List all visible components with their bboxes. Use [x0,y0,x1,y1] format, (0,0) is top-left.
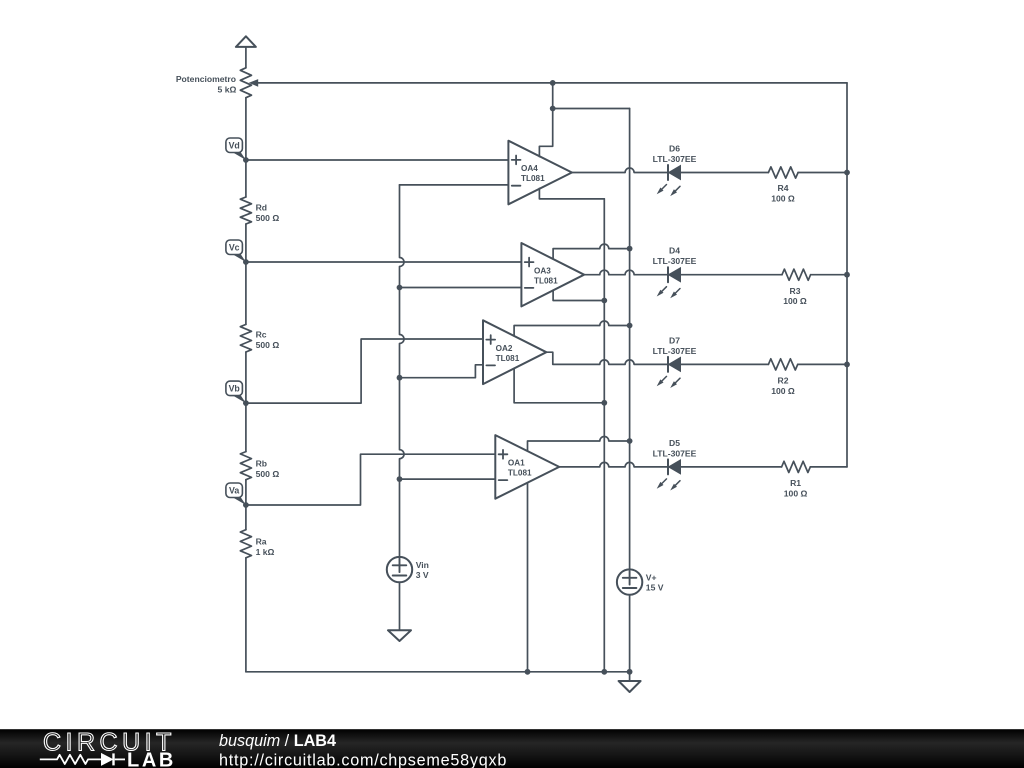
ground (bottom rail) [619,672,641,692]
node Va junction dot [243,502,249,508]
svg-text:100 Ω: 100 Ω [771,386,795,396]
voltage source Vin 3 V [387,557,429,582]
wire: ladder top segment [245,98,247,160]
wire ladder Vd to Rd [245,160,247,197]
svg-text:Potenciometro: Potenciometro [176,74,236,84]
svg-text:OA1: OA1 [508,459,525,468]
wire ladder Ra down to bottom rail [245,558,247,672]
node OA3 V+ at rail [627,246,633,252]
svg-text:Vin: Vin [416,560,429,570]
wire Vb row up to OA2 + input [246,339,483,403]
svg-text:OA3: OA3 [534,266,551,275]
wire Va row up to OA1 + input [246,454,495,505]
wire R4 to right rail [798,172,847,174]
svg-text:LAB: LAB [127,749,176,768]
svg-text:LTL-307EE: LTL-307EE [653,154,697,164]
wire right rail (pot wiper net) [846,83,848,467]
resistor Rd 500 Ohm [240,197,279,224]
svg-text:LTL-307EE: LTL-307EE [653,448,697,458]
wire Vin source to ground [399,583,401,631]
wire V- bus vertical (x=604) [603,199,605,672]
svg-text:Va: Va [229,485,239,495]
svg-text:500 Ω: 500 Ω [256,340,280,350]
node OA3 V- at bus [601,298,607,304]
CircuitLab logo [40,729,176,768]
resistor Rc 500 Ohm [240,324,279,352]
node OA2 V- at bus [601,400,607,406]
node Vc (net label flag) [226,240,246,262]
wire OA2 V+ pin to V+ rail (hop) [514,321,630,336]
svg-text:OA4: OA4 [521,164,538,173]
svg-text:R3: R3 [790,286,801,296]
svg-text:Rb: Rb [256,459,267,469]
svg-text:Vb: Vb [229,384,241,394]
wire to OA3 - input [400,287,522,289]
svg-text:Vd: Vd [229,140,240,150]
op-amp OA2 (OA2 TL081) [483,320,546,384]
LED D6 LTL-307EE [653,144,697,197]
wire branch to V+ rail top [553,108,630,110]
svg-text:http://circuitlab.com/chpseme5: http://circuitlab.com/chpseme58yqxb [219,751,507,768]
node Vin bus to OA1 - input [397,476,403,482]
svg-text:1 kΩ: 1 kΩ [256,547,275,557]
node Vin bus to OA3 - input [397,285,403,291]
wire ladder Vc to Rc [245,262,247,324]
svg-text:D5: D5 [669,438,680,448]
wire OA3 output row to R3 (hops) [584,270,782,275]
svg-text:R4: R4 [778,183,789,193]
node V+ branch junction [550,106,556,112]
node R4/right rail [844,170,850,176]
wire OA1 V- pin down to bottom rail [527,483,529,672]
voltage source V+ 15 V [617,569,664,594]
LED D7 LTL-307EE [653,335,697,388]
wire R3 to right rail [811,274,847,276]
svg-text:TL081: TL081 [496,354,520,363]
node Vin bus to OA2 - input [397,375,403,381]
svg-text:D7: D7 [669,335,680,345]
svg-text:Ra: Ra [256,537,267,547]
resistor R1 100 Ohm [782,461,811,498]
power supply flag (VCC arrow) [236,36,256,68]
wire ladder Rd to Vc [245,224,247,262]
wire bottom ground rail [246,671,630,673]
wire OA1 V+ pin to V+ rail (hop) [528,437,630,451]
svg-text:100 Ω: 100 Ω [771,194,795,204]
svg-text:500 Ω: 500 Ω [256,469,280,479]
svg-text:TL081: TL081 [508,469,532,478]
svg-text:TL081: TL081 [521,174,545,183]
wire to OA1 - input [400,478,496,480]
svg-text:Vc: Vc [229,242,240,252]
node top wire junction [550,80,556,86]
node Vb junction dot [243,400,249,406]
wire Vd row to OA4 + input [246,159,509,161]
wire OA3 V- pin to V- bus [553,290,604,300]
wire to OA2 - input (with step) [400,365,484,378]
ground (below Vin) [388,630,411,641]
svg-text:100 Ω: 100 Ω [784,488,808,498]
wire Vin bus vertical (hops over Vc, Vb-row, Va-row) [400,185,405,557]
op-amp OA3 (OA3 TL081) [521,243,584,306]
svg-text:500 Ω: 500 Ω [256,213,280,223]
resistor R4 100 Ohm [768,167,798,204]
svg-text:D4: D4 [669,246,680,256]
svg-text:TL081: TL081 [534,276,558,285]
svg-text:D6: D6 [669,144,680,154]
wire OA1 output row to R1 (hops) [559,462,781,467]
wire OA2 output jog and row to R2 (hops) [546,352,768,364]
LED D4 LTL-307EE [653,246,697,299]
op-amp OA4 (OA4 TL081) [508,141,572,205]
node OA2 V+ at rail [627,323,633,329]
svg-text:100 Ω: 100 Ω [783,296,807,306]
node Vd (net label flag) [226,138,246,160]
svg-text:LTL-307EE: LTL-307EE [653,346,697,356]
resistor R3 100 Ohm [782,269,811,306]
svg-text:15 V: 15 V [646,582,664,592]
wire V+ rail vertical [629,109,631,570]
wire ladder Rc to Vb [245,352,247,403]
node Vc junction dot [243,259,249,265]
svg-text:3 V: 3 V [416,570,429,580]
node Va (net label flag) [226,483,246,505]
node bottom rail dots [525,669,531,675]
wire ladder Rb to Va [245,480,247,505]
wire R1 to right rail corner [810,466,847,468]
wire Vin bus top to OA4 - input [400,184,509,186]
node R2/right rail [844,362,850,368]
wire OA4 V+ pin to top wire [539,83,552,157]
op-amp OA1 (OA1 TL081) [495,435,559,499]
potentiometer Potenciometro 5 kOhm [176,68,847,98]
svg-text:LTL-307EE: LTL-307EE [653,256,697,266]
wire OA4 output row to R4 (hop over V+ rail) [572,168,769,173]
node OA1 V+ at rail [627,438,633,444]
svg-text:OA2: OA2 [496,344,513,353]
svg-text:Rc: Rc [256,330,267,340]
wire ladder Vb to Rb [245,403,247,452]
svg-text:Rd: Rd [256,203,267,213]
LED D5 LTL-307EE [653,438,697,491]
wire ladder Va to Ra [245,505,247,530]
resistor Rb 500 Ohm [240,452,279,480]
svg-text:busquim / LAB4: busquim / LAB4 [219,732,336,750]
node Vb (net label flag) [226,381,246,403]
wire V+ source to bottom rail [629,595,631,672]
svg-text:R2: R2 [778,376,789,386]
node Vd junction dot [243,157,249,163]
resistor Ra 1 kOhm [240,530,274,558]
footer bar [0,729,1024,768]
wire OA3 V+ pin to V+ rail (hop) [553,244,630,259]
svg-text:R1: R1 [790,478,801,488]
wire R2 to right rail [798,363,847,365]
node R3/right rail [844,272,850,278]
wire OA2 V- pin to V- bus [514,368,604,403]
svg-text:V+: V+ [646,573,657,583]
svg-text:5 kΩ: 5 kΩ [218,85,237,95]
wire Vc row to OA3 + input [246,261,522,263]
wire OA4 V- pin to V- bus [539,188,604,199]
resistor R2 100 Ohm [768,359,797,396]
